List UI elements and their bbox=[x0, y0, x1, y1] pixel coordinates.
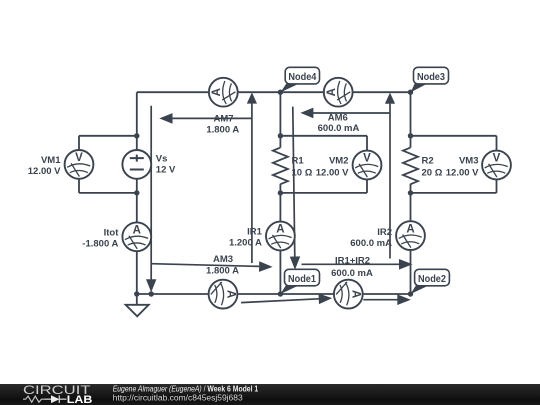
svg-text:12 V: 12 V bbox=[156, 164, 176, 175]
svg-text:Itot: Itot bbox=[104, 227, 120, 238]
ammeter AM6 bbox=[324, 78, 353, 107]
node junction dot annotation at bottom rail bbox=[149, 291, 154, 296]
svg-text:R1: R1 bbox=[292, 156, 305, 167]
node junction dot ground bbox=[134, 291, 139, 296]
arrowhead right AM3 bbox=[259, 261, 273, 272]
wire bottom rail bbox=[137, 293, 411, 295]
footer bar bbox=[0, 383, 540, 405]
svg-text:IR1: IR1 bbox=[247, 227, 263, 238]
svg-text:A: A bbox=[211, 88, 223, 96]
svg-text:IR2: IR2 bbox=[377, 227, 392, 238]
voltmeter VM3 bbox=[482, 151, 511, 180]
svg-text:10 Ω: 10 Ω bbox=[292, 168, 313, 179]
ammeter IR1+IR2 (bottom right) bbox=[334, 280, 363, 309]
node junction dot bottom of VM1 link bbox=[134, 190, 139, 195]
svg-text:AM7: AM7 bbox=[213, 114, 233, 125]
wire AM6 current arrow line bbox=[312, 112, 390, 114]
wire VM2 loop bbox=[280, 136, 367, 193]
wire annotation vertical mid (up arrow, AM7 return) bbox=[251, 103, 253, 263]
svg-text:12.00 V: 12.00 V bbox=[316, 168, 349, 179]
svg-text:V: V bbox=[75, 152, 83, 164]
node Node3 callout bbox=[411, 67, 449, 92]
wire IR1+IR2 current arrow line bbox=[302, 263, 401, 265]
wire annotation vertical left (down arrow to ground node) bbox=[150, 106, 152, 280]
wire left vertical Vs branch bbox=[136, 92, 138, 294]
ground bbox=[126, 294, 149, 316]
wire annotation vertical right (up arrow, AM6 return) bbox=[389, 104, 391, 259]
svg-text:12.00 V: 12.00 V bbox=[446, 168, 479, 179]
arrowhead up right bbox=[385, 93, 395, 104]
svg-text:Node4: Node4 bbox=[288, 72, 316, 83]
wire AM3 current arrow line bbox=[151, 264, 259, 267]
voltmeter VM2 bbox=[353, 151, 382, 180]
arrowhead left AM6 bbox=[300, 108, 313, 119]
arrowhead left AM7 bbox=[159, 113, 172, 124]
svg-text:Vs: Vs bbox=[156, 154, 168, 165]
resistor R1 body bbox=[273, 148, 288, 185]
svg-text:A: A bbox=[326, 88, 338, 96]
node junction dot R2 bottom bbox=[408, 190, 413, 195]
svg-text:A: A bbox=[276, 224, 284, 236]
arrowhead right bottom B bbox=[397, 294, 411, 305]
arrowhead right bottom A bbox=[319, 294, 333, 305]
ammeter AM3 (bottom left) bbox=[209, 280, 238, 309]
svg-text:A: A bbox=[406, 223, 414, 235]
svg-text:600.0 mA: 600.0 mA bbox=[331, 268, 373, 279]
svg-text:A: A bbox=[350, 290, 362, 298]
svg-text:Node3: Node3 bbox=[417, 72, 445, 83]
svg-text:20 Ω: 20 Ω bbox=[422, 168, 443, 179]
svg-text:VM1: VM1 bbox=[41, 155, 61, 166]
wire bottom current arrow line B bbox=[363, 299, 398, 301]
wire R1 branch vertical bbox=[279, 92, 281, 294]
svg-text:V: V bbox=[493, 153, 501, 165]
node Node4 callout bbox=[281, 67, 320, 92]
arrowhead up mid bbox=[247, 92, 257, 103]
wire bottom current arrow line A bbox=[241, 299, 319, 303]
node Node1 junction dot bbox=[278, 291, 283, 296]
svg-text:A: A bbox=[133, 225, 141, 237]
svg-text:600.0 mA: 600.0 mA bbox=[350, 238, 392, 249]
svg-text:http://circuitlab.com/c845esj5: http://circuitlab.com/c845esj59j683 bbox=[113, 392, 243, 402]
wire top rail bbox=[137, 91, 411, 93]
svg-text:1.800 A: 1.800 A bbox=[206, 124, 239, 135]
node Node1 callout bbox=[281, 269, 320, 294]
svg-text:A: A bbox=[224, 290, 236, 298]
voltmeter VM1 bbox=[65, 150, 94, 179]
svg-text:12.00 V: 12.00 V bbox=[28, 166, 61, 177]
arrowhead down at ground node bbox=[146, 279, 156, 292]
svg-text:1.800 A: 1.800 A bbox=[206, 266, 239, 277]
ammeter AM7 bbox=[209, 78, 238, 107]
CircuitLab logo diode bbox=[45, 395, 67, 403]
ammeter IR2 bbox=[396, 221, 425, 250]
wire R2 branch vertical bbox=[410, 92, 412, 294]
svg-text:LAB: LAB bbox=[67, 394, 93, 405]
ammeter Itot bbox=[122, 222, 151, 251]
resistor R2 body bbox=[403, 148, 418, 185]
node junction dot R1 top bbox=[278, 133, 283, 138]
svg-text:600.0 mA: 600.0 mA bbox=[318, 123, 360, 134]
node Node2 junction dot bbox=[408, 291, 413, 296]
wire VM3 loop bbox=[411, 136, 497, 193]
node junction dot R1 bottom bbox=[278, 190, 283, 195]
svg-text:-1.800 A: -1.800 A bbox=[82, 238, 118, 249]
svg-text:VM3: VM3 bbox=[459, 156, 479, 167]
voltage source Vs bbox=[122, 150, 151, 179]
arrowhead right IR1+IR2 bbox=[399, 259, 413, 270]
svg-text:1.200 A: 1.200 A bbox=[229, 238, 262, 249]
wire AM7 current arrow line bbox=[171, 117, 252, 119]
wire VM1 top link bbox=[79, 136, 137, 193]
svg-text:VM2: VM2 bbox=[329, 156, 349, 167]
arrowhead down at Node1 bbox=[290, 256, 300, 269]
node junction dot top of VM1 link bbox=[134, 133, 139, 138]
node Node4 junction dot bbox=[278, 90, 283, 95]
wire VM1 bottom link bbox=[79, 192, 137, 194]
svg-text:AM3: AM3 bbox=[213, 254, 233, 265]
svg-text:Node1: Node1 bbox=[288, 274, 316, 285]
svg-text:Node2: Node2 bbox=[418, 274, 446, 285]
svg-text:AM6: AM6 bbox=[328, 112, 348, 123]
CircuitLab logo resistor squiggle bbox=[23, 396, 44, 402]
svg-text:R2: R2 bbox=[422, 156, 434, 167]
wire annotation down to Node1 bbox=[293, 107, 295, 257]
node Node2 callout bbox=[411, 269, 450, 294]
node Node3 junction dot bbox=[408, 90, 413, 95]
node junction dot R2 top bbox=[408, 133, 413, 138]
svg-text:V: V bbox=[363, 153, 371, 165]
ammeter IR1 bbox=[266, 222, 295, 251]
svg-text:IR1+IR2: IR1+IR2 bbox=[335, 255, 370, 266]
